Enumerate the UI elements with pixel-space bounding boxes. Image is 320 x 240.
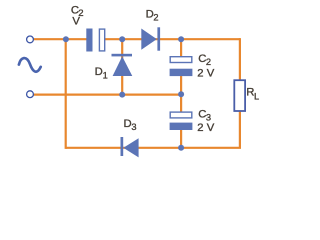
wire middle rail (34, 93, 182, 95)
wire D1 branch (121, 39, 123, 94)
diode D3 (121, 137, 139, 157)
junction node bottom rail at C3 (178, 145, 184, 151)
terminal top (open circle) (27, 36, 34, 43)
svg-text:V: V (72, 16, 80, 28)
resistor RL (234, 80, 245, 111)
diode D2 (141, 27, 160, 50)
junction node on top rail at left vertical (63, 36, 69, 42)
svg-text:2 V: 2 V (197, 122, 214, 134)
svg-text:2 V: 2 V (197, 68, 214, 80)
junction node middle rail at D1 (119, 92, 125, 98)
wire right rail vertical (239, 38, 241, 148)
svg-text:L: L (254, 91, 259, 101)
wire top rail left segment (34, 38, 88, 40)
svg-text:2: 2 (206, 57, 211, 67)
junction node on top rail at D1 branch (119, 36, 125, 42)
capacitor C2 (right, 2V) (170, 57, 193, 76)
junction node on top rail after D2 (178, 36, 184, 42)
wire C2 branch upper (180, 39, 182, 58)
svg-text:2: 2 (153, 12, 158, 22)
capacitor C3 (2V) (170, 112, 193, 130)
wire left vertical (65, 38, 67, 149)
wire top rail right segment (105, 38, 240, 40)
wire C3 branch lower (180, 128, 182, 148)
wire bottom rail (66, 147, 241, 149)
capacitor C2 (series input cap) (86, 29, 104, 52)
wire C2-C3 branch middle (180, 74, 182, 113)
svg-text:1: 1 (103, 71, 108, 81)
AC source sine symbol (19, 58, 41, 72)
terminal bottom (open circle) (27, 91, 34, 98)
svg-text:3: 3 (131, 122, 136, 132)
diode D1 (112, 54, 133, 76)
svg-text:D: D (95, 66, 103, 78)
junction node middle rail at C2/C3 (178, 91, 184, 97)
